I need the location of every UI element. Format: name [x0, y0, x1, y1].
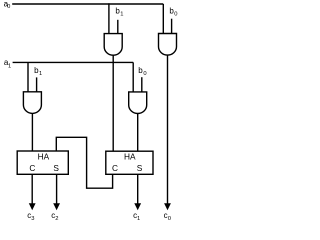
node c1 label: [133, 211, 140, 222]
svg-text:2: 2: [55, 216, 58, 222]
svg-text:0: 0: [174, 12, 177, 18]
wire HA1 S output arrow (c2): [53, 174, 60, 210]
node c0 label: [164, 211, 171, 222]
svg-text:0: 0: [143, 71, 146, 77]
svg-text:1: 1: [120, 12, 123, 18]
wire a0 horizontal bus: [12, 3, 163, 5]
node c2 label: [51, 211, 58, 222]
wire U4 output to HA2: [137, 113, 139, 151]
wire b0 stub into gate U4: [141, 77, 143, 92]
half adder HA2 box: [106, 151, 153, 174]
svg-text:S: S: [137, 163, 143, 173]
svg-text:HA: HA: [38, 152, 50, 162]
node b1 label (second): [34, 66, 42, 77]
wire a1 drop to gate U3: [27, 62, 29, 91]
wire b1 stub into gate U3: [36, 77, 38, 91]
wire b0 stub into gate U2: [171, 19, 173, 34]
wire U3 output to HA1: [31, 113, 33, 151]
AND gate U2 (a0.b0): [159, 34, 177, 56]
node a1 label: [4, 58, 11, 70]
node b0 label (second): [138, 66, 146, 77]
wire HA2 carry to HA1 input (bent feedback wire): [56, 137, 112, 188]
wire a1 horizontal bus: [13, 61, 134, 63]
wire U2 output arrow (c0): [164, 55, 171, 210]
node a0 label: [4, 0, 11, 10]
svg-text:0: 0: [168, 216, 171, 222]
wire b1 stub into gate U1: [117, 20, 119, 34]
svg-text:C: C: [29, 163, 35, 173]
svg-text:C: C: [112, 163, 118, 173]
wire a0 drop to gate U1: [108, 3, 110, 33]
svg-text:3: 3: [31, 216, 34, 222]
svg-text:S: S: [53, 163, 59, 173]
node b0 label (top right): [169, 6, 177, 17]
svg-text:0: 0: [7, 4, 10, 10]
node c3 label: [27, 211, 34, 222]
svg-text:1: 1: [39, 71, 42, 77]
svg-text:HA: HA: [124, 151, 136, 161]
AND gate U3 (a1.b1): [23, 92, 41, 114]
svg-text:1: 1: [137, 216, 140, 222]
half adder HA1 box: [17, 151, 68, 174]
wire HA2 S output arrow (c1): [134, 174, 141, 210]
wire HA1 C output arrow (c3): [29, 174, 36, 210]
wire a0 drop to gate U2: [162, 4, 164, 34]
wire U1 output to HA2: [112, 55, 114, 151]
AND gate U1 (a0.b1): [104, 34, 122, 56]
svg-text:1: 1: [8, 64, 11, 70]
node b1 label (top): [115, 6, 123, 17]
wire a1 drop to gate U4: [132, 62, 134, 92]
AND gate U4 (a1.b0): [129, 92, 147, 114]
